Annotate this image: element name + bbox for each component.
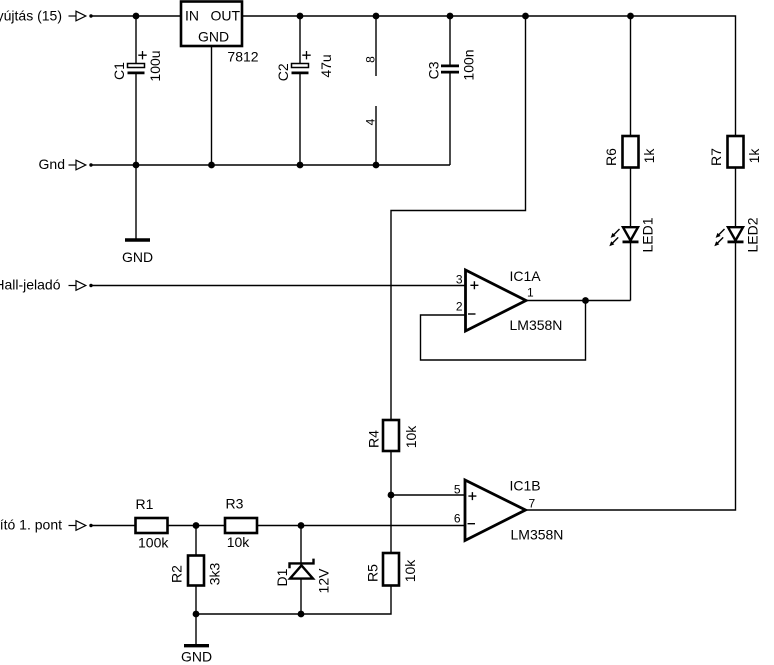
- svg-text:7812: 7812: [227, 49, 258, 65]
- svg-text:47u: 47u: [318, 54, 334, 77]
- svg-text:OUT: OUT: [210, 8, 240, 24]
- svg-text:LED1: LED1: [640, 217, 656, 252]
- diode LED2: [714, 217, 760, 252]
- input arrow Gnd: [69, 160, 93, 170]
- svg-text:Gnd: Gnd: [39, 156, 65, 172]
- wire R6 top lead: [630, 16, 632, 136]
- pin 4 V- stub: [375, 106, 377, 165]
- svg-text:R4: R4: [366, 430, 382, 448]
- resistor R3 10k: [225, 496, 257, 550]
- svg-text:LED2: LED2: [745, 217, 761, 252]
- svg-text:Gyújtás (15): Gyújtás (15): [0, 8, 62, 24]
- svg-text:GND: GND: [198, 29, 229, 45]
- wire C2 leads: [299, 16, 301, 165]
- wire IC1A feedback: [421, 301, 586, 361]
- svg-text:C2: C2: [275, 63, 291, 81]
- svg-text:10k: 10k: [227, 534, 251, 550]
- capacitor C1 100u: [111, 50, 163, 81]
- capacitor C3 100n: [426, 49, 477, 80]
- op-amp IC1A: [456, 268, 563, 333]
- wire R4 to R5: [390, 451, 392, 553]
- regulator U 7812: [181, 2, 242, 47]
- svg-text:C3: C3: [426, 61, 442, 79]
- svg-text:R1: R1: [136, 496, 154, 512]
- input arrow Megszakito 1. pont: [69, 521, 93, 531]
- svg-text:GND: GND: [181, 649, 212, 665]
- svg-text:1k: 1k: [641, 148, 657, 164]
- ground symbol bottom GND: [181, 646, 212, 665]
- svg-text:1k: 1k: [746, 148, 762, 164]
- wire IC1B output to LED2: [526, 243, 736, 510]
- wire ground stub top: [135, 165, 137, 239]
- wire LED1 leads: [630, 168, 632, 301]
- op-amp IC1B: [454, 477, 564, 542]
- wire ground stub bottom: [195, 614, 197, 644]
- wire Hall input to pin 3: [92, 285, 466, 287]
- svg-text:IC1B: IC1B: [510, 477, 541, 493]
- svg-text:100k: 100k: [138, 534, 169, 550]
- svg-text:1: 1: [527, 285, 534, 299]
- svg-text:Megszakító 1. pont: Megszakító 1. pont: [0, 517, 62, 533]
- svg-text:3k3: 3k3: [207, 563, 223, 586]
- wire IC1A output: [526, 300, 631, 302]
- svg-text:IC1A: IC1A: [510, 268, 542, 284]
- svg-text:7: 7: [529, 497, 536, 511]
- svg-text:10k: 10k: [402, 559, 418, 583]
- svg-text:100n: 100n: [461, 49, 477, 80]
- svg-text:IN: IN: [185, 8, 199, 24]
- svg-text:LM358N: LM358N: [510, 317, 563, 333]
- svg-text:2: 2: [456, 300, 463, 314]
- svg-text:D1: D1: [274, 568, 290, 586]
- svg-text:12V: 12V: [316, 568, 332, 594]
- wire LED2 top lead: [735, 168, 737, 228]
- svg-text:10k: 10k: [403, 425, 419, 449]
- resistor R5 10k: [365, 553, 419, 586]
- wire from rail down to R4: [391, 16, 526, 420]
- svg-text:Hall-jeladó: Hall-jeladó: [0, 277, 61, 293]
- resistor R6 1k: [603, 136, 657, 168]
- diode LED1: [609, 217, 655, 252]
- svg-text:R2: R2: [169, 565, 185, 583]
- wire C3 leads: [449, 16, 451, 165]
- resistor R7 1k: [708, 136, 762, 168]
- wire R2 lead: [195, 526, 197, 615]
- wire ground rail: [92, 164, 450, 166]
- wire input row to pin 6: [92, 525, 466, 527]
- wire D1 lead: [300, 526, 302, 615]
- svg-text:R6: R6: [603, 148, 619, 166]
- input arrow Hall-jelado: [69, 281, 93, 291]
- svg-text:4: 4: [364, 118, 378, 125]
- wire C1 leads: [135, 16, 137, 165]
- svg-text:R5: R5: [365, 564, 381, 582]
- zener diode D1 12V: [274, 559, 332, 594]
- wire divider to pin 5: [391, 494, 466, 496]
- wire top supply rail: [92, 16, 736, 136]
- wire regulator GND lead: [211, 46, 213, 165]
- svg-text:8: 8: [364, 56, 378, 63]
- capacitor C2 47u: [275, 51, 334, 81]
- resistor R1 100k: [136, 496, 170, 550]
- svg-text:3: 3: [456, 272, 463, 286]
- svg-text:100u: 100u: [147, 50, 163, 81]
- svg-text:R3: R3: [226, 496, 244, 512]
- svg-text:6: 6: [454, 511, 461, 525]
- svg-text:R7: R7: [708, 148, 724, 166]
- svg-text:LM358N: LM358N: [511, 527, 564, 543]
- svg-text:5: 5: [454, 483, 461, 497]
- ground symbol top GND: [122, 240, 153, 265]
- svg-text:C1: C1: [111, 62, 127, 80]
- svg-text:GND: GND: [122, 249, 153, 265]
- input arrow Gyujtas (15): [69, 11, 93, 21]
- wire bottom ground rail: [196, 586, 391, 615]
- pin 8 V+ stub: [375, 16, 377, 76]
- resistor R2 3k3: [169, 556, 223, 586]
- resistor R4 10k: [366, 420, 420, 451]
